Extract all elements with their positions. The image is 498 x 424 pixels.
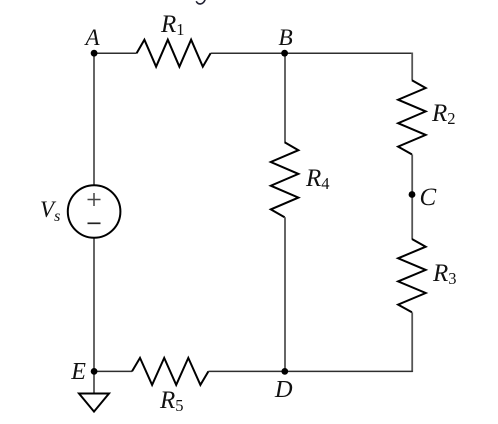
wire R3 to bottom-right corner bbox=[411, 312, 413, 372]
svg-text:C: C bbox=[420, 184, 437, 211]
wire A down to Vs bbox=[93, 53, 95, 186]
wire B to top-right corner bbox=[285, 52, 413, 54]
node D bbox=[281, 368, 288, 375]
node C bbox=[409, 191, 416, 198]
cut-off glyph fragment at top bbox=[196, 0, 205, 4]
voltage source Vs circle bbox=[68, 185, 121, 238]
node A bbox=[91, 50, 98, 57]
wire A to R1 bbox=[94, 52, 136, 54]
wire E to ground bbox=[93, 371, 95, 393]
wire corner down to R2 bbox=[411, 53, 413, 81]
Vs minus sign bbox=[88, 222, 101, 224]
wire R4 to D bbox=[284, 217, 286, 371]
resistor R5 bbox=[132, 358, 208, 385]
svg-text:E: E bbox=[70, 359, 86, 385]
svg-text:A: A bbox=[83, 25, 100, 50]
wire R5 to D bbox=[208, 370, 285, 372]
svg-text:B: B bbox=[278, 25, 292, 51]
wire E to R5 bbox=[94, 370, 132, 372]
svg-text:D: D bbox=[274, 376, 293, 403]
resistor R1 bbox=[137, 40, 211, 67]
resistor R2 bbox=[398, 80, 426, 154]
resistor R4 bbox=[271, 142, 299, 217]
node B bbox=[281, 50, 288, 57]
resistor R3 bbox=[398, 239, 426, 312]
wire D to bottom-right corner bbox=[285, 370, 413, 372]
ground bbox=[79, 394, 109, 412]
node E bbox=[91, 368, 98, 375]
wire B down to R4 bbox=[284, 53, 286, 142]
wire R2 to C bbox=[411, 154, 413, 239]
wire Vs to E bbox=[93, 238, 95, 372]
wire R1 to B bbox=[211, 52, 285, 54]
Vs plus sign bbox=[88, 193, 101, 206]
